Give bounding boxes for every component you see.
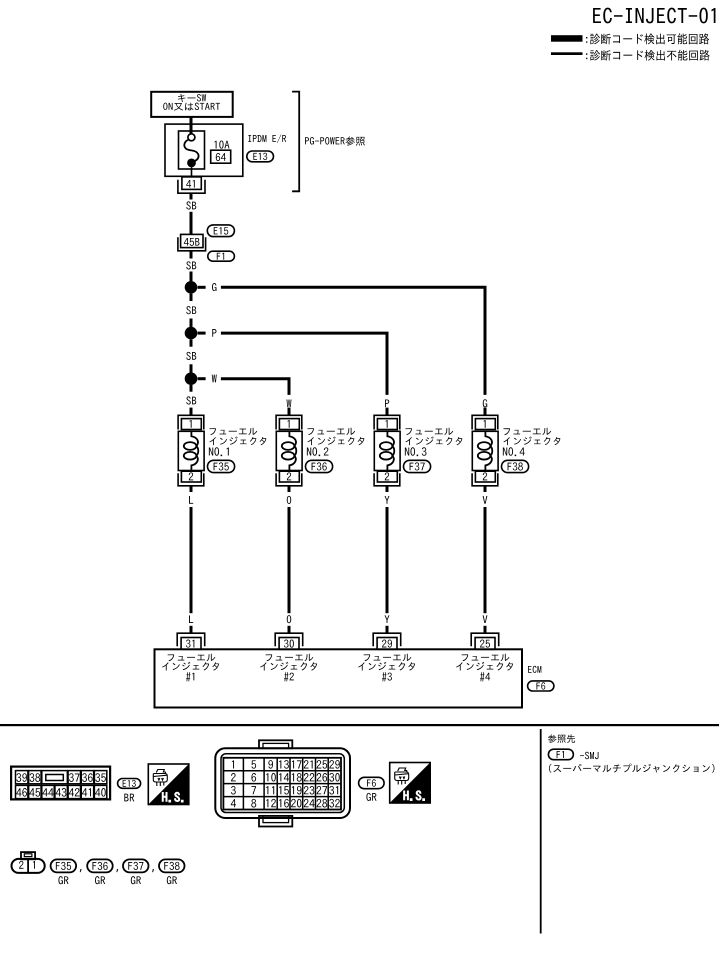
wire color label V (483, 496, 488, 504)
label IPDM E/R (248, 134, 286, 143)
reference heading (548, 734, 575, 743)
pin 41 of IPDM (182, 177, 201, 190)
fuse rating 10A (214, 141, 229, 149)
harness symbol H.S. for E13 (148, 764, 189, 805)
ECM pin 25 (471, 633, 499, 649)
wire stub below injector NO.1 (190, 486, 193, 492)
wire stub into injector at x=289 (288, 408, 291, 416)
circuit breaker inner box (179, 131, 205, 169)
connector oval E13 (247, 151, 274, 162)
connector oval F1 (208, 251, 235, 261)
wire color code GR for F35 (58, 876, 68, 884)
junction node dot for W branch (185, 372, 198, 385)
IPDM E/R box E13 (165, 124, 243, 176)
wire stub into ECM pin (288, 626, 291, 634)
reference connector oval F1 (548, 749, 573, 760)
wire color label P above injector (385, 399, 389, 407)
legend thin line: diagnosis-code undetectable circuit (551, 52, 583, 55)
branch wire color label W (212, 375, 217, 383)
legend thick line: diagnosis-code detectable circuit (551, 35, 583, 42)
circuit breaker S-curve element (184, 140, 198, 161)
wire SB to junction G (190, 272, 193, 282)
wire stub below SMJ 45B (190, 252, 193, 259)
circuit breaker contact circle (188, 134, 195, 141)
label fuel injector NO.1 (209, 428, 267, 456)
connector oval F37 (404, 460, 431, 472)
wire color label O (287, 496, 291, 504)
ECM pin 31 (177, 633, 205, 649)
wire breaker to pin 41 (191, 167, 193, 177)
fuel injector NO.4 F38 (472, 415, 498, 486)
fuel injector NO.3 F37 (374, 415, 400, 486)
branch wire P to injector NO.3 (221, 333, 387, 395)
wire segment junction P to SB label (190, 339, 193, 346)
branch wire G to injector NO.4 (221, 287, 485, 395)
power source box: key SW ON or START (151, 92, 233, 117)
wire stub into injector at x=485 (484, 408, 487, 416)
ECM internal label fuel injector #4 (456, 654, 513, 682)
wire stub below injector NO.4 (484, 486, 487, 492)
connector oval F36 (306, 460, 333, 472)
connector view F6 housing (215, 740, 350, 826)
wire color code GR for F38 (167, 876, 177, 884)
wire color code GR for F37 (131, 876, 141, 884)
comma separator (80, 869, 82, 872)
wire stub into ECM pin (484, 626, 487, 634)
reference note super multiple junction (549, 764, 715, 773)
wire color label SB (186, 201, 196, 209)
wire from key SW to IPDM breaker (190, 117, 193, 134)
ECM internal label fuel injector #1 (162, 654, 219, 682)
wire stub below injector NO.3 (386, 486, 389, 492)
label ECM (528, 666, 541, 673)
separator line (0, 724, 719, 726)
title EC-INJECT-01 (593, 8, 715, 24)
connector oval F6 (528, 681, 554, 691)
reference label -SMJ (580, 752, 599, 759)
label fuel injector NO.2 (307, 428, 365, 456)
fuel injector NO.1 F35 (178, 415, 204, 486)
connector oval F38 view label (159, 859, 185, 872)
wire color label W above injector (287, 399, 292, 407)
wire color label SB above injector NO.1 (186, 396, 196, 404)
wire color label O above ECM (287, 615, 291, 623)
connector view F6 pin grid (223, 758, 341, 810)
wire color code BR (124, 794, 134, 802)
ECM internal label fuel injector #2 (260, 654, 317, 682)
wire V injector to ECM (484, 507, 487, 613)
wire color label SB below 45B (186, 261, 196, 269)
wire segment SB label to junction W (190, 364, 193, 372)
reference section divider (540, 729, 542, 934)
connector oval F38 (502, 460, 529, 472)
connector oval F36 view label (87, 859, 113, 872)
label fuel injector NO.4 (503, 428, 561, 456)
ECM box F6 (155, 649, 523, 707)
comma separator (116, 869, 118, 872)
wire segment below junction W (190, 385, 193, 392)
junction node dot for P branch (185, 327, 198, 340)
wire color label G above injector (483, 399, 487, 407)
wire stub into injector at x=191 (190, 408, 193, 416)
connector oval F6 view label (359, 777, 385, 788)
connector oval E13 view label (118, 779, 141, 789)
fuse number 64 box (211, 150, 231, 163)
connector view E13 pin grid (11, 767, 110, 800)
wire color label SB (186, 306, 196, 314)
wire segment junction G to SB label (190, 294, 193, 301)
fuel injector NO.2 F36 (276, 415, 302, 486)
ECM pin 29 (373, 633, 401, 649)
wire SB to SMJ 45B (190, 212, 193, 235)
wire color label Y above ECM (385, 615, 390, 623)
wire color label V above ECM (483, 615, 488, 623)
wire segment SB label to junction P (190, 319, 193, 328)
SMJ through connector 45B (181, 234, 203, 247)
connector oval E15 (207, 225, 234, 237)
connector oval F35 view label (51, 859, 77, 872)
wire stub below injector NO.2 (288, 486, 291, 492)
ECM pin 30 (275, 633, 303, 649)
label fuel injector NO.3 (405, 428, 463, 456)
wire L injector to ECM (190, 507, 193, 613)
wire O injector to ECM (288, 507, 291, 613)
branch wire color label G (212, 283, 216, 291)
circuit breaker output dot (187, 159, 196, 168)
wire stub into ECM pin (190, 626, 193, 634)
wire color label L above ECM (189, 615, 193, 623)
connector view injector 2-pin (12, 852, 45, 873)
bracket for PG-POWER reference (292, 92, 299, 192)
wire pin41 to SB label (190, 193, 193, 199)
branch wire W to injector NO.2 (221, 379, 289, 395)
junction node dot for G branch (185, 281, 198, 294)
note PG-POWER reference (305, 136, 365, 145)
wire color label L (189, 496, 193, 504)
wire color code GR for F6 (366, 793, 376, 801)
wire color code GR for F36 (95, 876, 105, 884)
wire color label Y (385, 496, 390, 504)
connector oval F37 view label (123, 859, 149, 872)
ECM internal label fuel injector #3 (358, 654, 415, 682)
branch wire color label P (212, 329, 216, 337)
wire stub into ECM pin (386, 626, 389, 634)
comma separator (152, 869, 154, 872)
wire Y injector to ECM (386, 507, 389, 613)
wire color label SB (186, 352, 196, 360)
wire stub into injector at x=387 (386, 408, 389, 416)
harness symbol H.S. for F6 (390, 763, 431, 804)
connector oval F35 (208, 460, 235, 472)
